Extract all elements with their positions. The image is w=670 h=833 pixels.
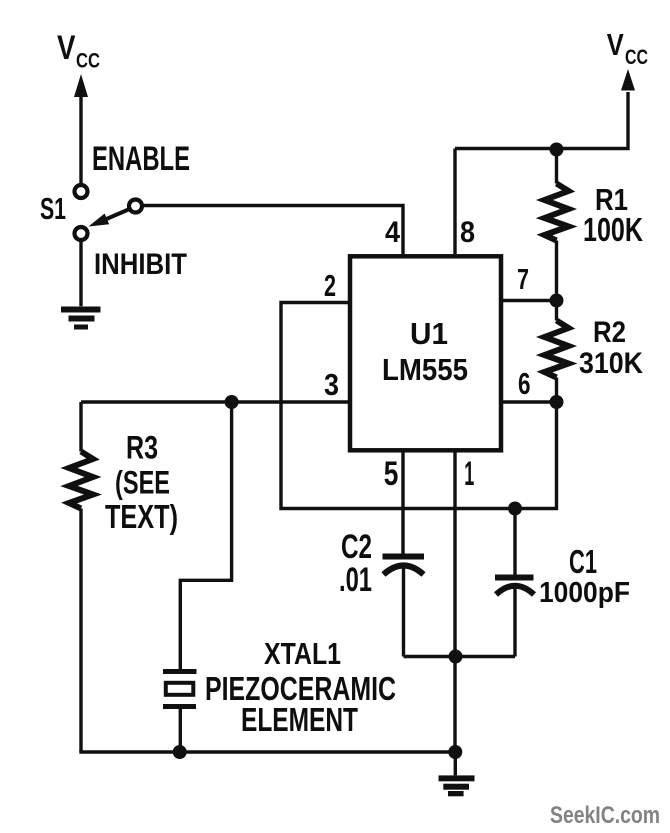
wire: junction to R1 [555,150,558,184]
node: Vcc / R1 junction [550,143,564,157]
node: pin7 / R1 / R2 junction [550,294,564,308]
svg-text:2: 2 [324,268,336,303]
wire: pin3 node down to R3 [79,402,82,452]
Vcc label right [607,27,648,69]
wire: switch pole to pin 4 [143,206,404,255]
crystal XTAL1 piezoceramic element [163,669,197,752]
wire: node to ground [454,752,457,775]
svg-text:310K: 310K [579,347,643,380]
svg-text:CC: CC [76,50,100,73]
capacitor C2 [383,554,425,657]
svg-text:1: 1 [464,455,474,493]
svg-text:7: 7 [517,264,529,296]
svg-text:LM555: LM555 [382,352,468,387]
pin 6 wire [501,400,557,403]
svg-text:5: 5 [384,455,399,493]
capacitor C1 [495,575,534,657]
svg-text:SeekIC.com: SeekIC.com [550,802,660,829]
IC U1 LM555 [350,256,501,450]
svg-text:6: 6 [518,366,531,401]
wire: threshold-trigger loop (pin6 down, across, up to pin2) [281,303,557,509]
wire: R3 down to bottom rail [79,509,82,753]
ground (left) [61,307,101,330]
node: pin6 / R2 junction [550,395,564,409]
Vcc arrow left [74,74,88,184]
switch S1 upper contact (ENABLE) [75,185,88,198]
resistor R2 [545,321,569,378]
ground (bottom) [439,775,475,796]
switch S1 pole contact [129,200,142,213]
svg-text:CC: CC [625,46,648,69]
svg-text:3: 3 [324,367,339,402]
node: C1 top junction [508,502,522,516]
wire: R1 to pin7 node [555,241,558,321]
svg-text:C1: C1 [569,543,597,580]
wire: lower contact to ground [79,241,82,307]
Vcc label left [57,29,100,73]
wire: C1 top stem [513,509,516,577]
pin 3 wire [81,400,350,403]
svg-text:XTAL1: XTAL1 [264,636,341,671]
node: pin3 / R3 / XTAL branch junction [225,395,239,409]
svg-text:1000pF: 1000pF [539,577,630,609]
switch S1 arm with arrowhead [89,210,129,227]
wire: R2 to pin6 node [555,378,558,403]
wire: XTAL branch [180,402,231,669]
svg-text:100K: 100K [583,211,643,248]
pin 8 wire [453,149,456,255]
node: XTAL / bottom rail junction [173,745,187,759]
svg-text:R3: R3 [126,430,158,466]
svg-text:ELEMENT: ELEMENT [241,701,358,738]
svg-text:ENABLE: ENABLE [92,140,190,178]
capacitor ground wire [404,655,516,658]
node: C2 / C1 / pin1 junction [449,650,463,664]
svg-text:8: 8 [460,216,475,249]
pin 5 wire [401,453,404,555]
svg-text:.01: .01 [339,561,372,599]
svg-text:V: V [607,27,624,62]
svg-text:V: V [57,29,76,67]
svg-text:INHIBIT: INHIBIT [94,248,187,281]
bottom ground rail wire [79,750,455,753]
svg-text:(SEE: (SEE [115,465,170,501]
switch S1 lower contact (INHIBIT) [75,227,88,240]
svg-text:U1: U1 [410,316,448,351]
Vcc wire right [455,92,628,149]
svg-text:TEXT): TEXT) [105,498,178,535]
svg-text:R2: R2 [593,316,626,349]
svg-text:4: 4 [385,216,400,249]
node: bottom rail / ground junction [448,745,462,759]
resistor R1 [545,184,569,241]
pin 1 wire [453,453,456,753]
svg-text:S1: S1 [40,191,66,226]
Vcc arrow right [621,69,635,91]
pin 7 wire [501,299,557,302]
resistor R3 [69,452,93,509]
